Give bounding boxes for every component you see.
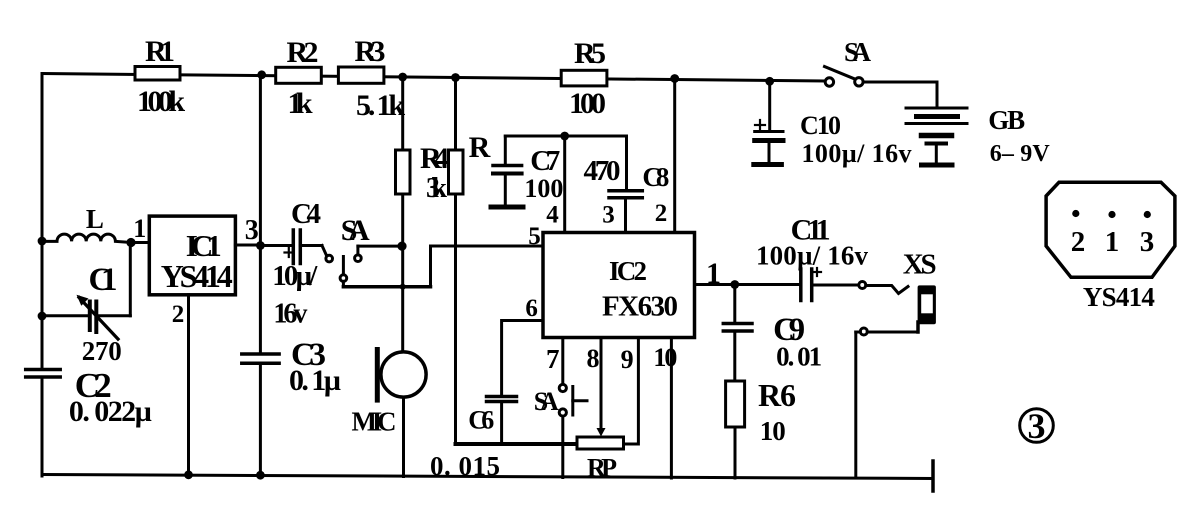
svg-text:2: 2 <box>655 200 668 227</box>
wire bottom rail <box>42 475 933 479</box>
op-amp IC2 box <box>543 233 695 338</box>
svg-text:C7: C7 <box>530 145 560 177</box>
resistor R <box>449 150 464 194</box>
svg-text:R2: R2 <box>287 36 319 69</box>
connector YS414 package <box>1046 182 1175 277</box>
svg-text:C6: C6 <box>468 406 494 435</box>
wire node pin3 vertical (top rail to C3 to bottom rail) <box>259 76 262 354</box>
svg-text:100: 100 <box>569 87 606 120</box>
svg-text:L: L <box>86 204 104 234</box>
svg-text:5. 1k: 5. 1k <box>356 89 405 122</box>
svg-text:R6: R6 <box>758 377 796 413</box>
svg-text:3: 3 <box>602 202 615 229</box>
svg-text:YS414: YS414 <box>1083 282 1155 312</box>
microphone MIC <box>375 246 426 476</box>
svg-text:8: 8 <box>587 344 600 373</box>
switch SA top-right <box>825 67 938 108</box>
svg-text:1: 1 <box>1105 226 1120 258</box>
svg-text:1k: 1k <box>288 87 313 120</box>
wire left vertical rail <box>41 74 44 370</box>
jack XS body <box>918 285 936 324</box>
wire R4 to node A <box>401 194 404 246</box>
wire top rail <box>42 74 825 82</box>
svg-text:SA: SA <box>844 37 872 67</box>
svg-text:100: 100 <box>524 174 563 203</box>
wire R4 branch from top rail <box>401 77 404 150</box>
wire R branch from top rail <box>454 78 457 151</box>
wire IC2 pin8 to RP wiper <box>600 338 603 429</box>
switch SA middle (after C4) <box>326 246 431 287</box>
capacitor C1 (variable) <box>42 243 130 340</box>
wire IC2 pin10 to bottom rail <box>670 338 673 479</box>
wire IC2 pin7 <box>561 338 564 385</box>
wire IC2 pin9 to RP right <box>624 338 639 445</box>
capacitor C8 <box>609 136 642 233</box>
svg-text:3: 3 <box>245 215 259 246</box>
wire IC1 pin3 to node <box>235 244 260 247</box>
resistor R4 <box>396 150 411 194</box>
svg-text:6: 6 <box>525 295 538 322</box>
svg-text:270: 270 <box>82 336 122 366</box>
svg-text:FX630: FX630 <box>602 291 678 323</box>
jack XS lower contact <box>856 322 918 478</box>
wire IC2 pin2 to top rail <box>673 78 676 233</box>
svg-text:6– 9V: 6– 9V <box>990 141 1051 167</box>
capacitor C4 <box>260 230 326 264</box>
resistor R6 <box>726 381 745 427</box>
svg-text:YS414: YS414 <box>161 258 233 294</box>
svg-text:1: 1 <box>706 257 721 290</box>
svg-text:7: 7 <box>546 344 560 374</box>
wire R down to RP node <box>454 194 457 444</box>
svg-text:C4: C4 <box>291 198 321 230</box>
svg-text:IC2: IC2 <box>609 256 647 286</box>
capacitor C7 <box>491 136 523 207</box>
svg-text:R1: R1 <box>145 35 175 68</box>
wire IC2 pin1 <box>695 283 799 286</box>
wire IC2 pin4 node to C7/C8 <box>505 135 626 138</box>
svg-text:0. 01: 0. 01 <box>776 342 822 372</box>
resistor R3 <box>338 67 384 83</box>
svg-text:3: 3 <box>1140 226 1155 258</box>
resistor R5 <box>561 70 607 86</box>
svg-text:470: 470 <box>584 155 621 187</box>
switch SA bottom (pin7) <box>559 384 587 477</box>
wire RP left node horizontal <box>456 442 578 446</box>
ground tick at right end of bottom rail <box>931 461 935 491</box>
svg-text:GB: GB <box>988 105 1025 135</box>
op-amp IC1 box <box>149 216 235 295</box>
svg-text:0. 015: 0. 015 <box>430 451 500 481</box>
svg-text:XS: XS <box>903 249 937 281</box>
inductor L <box>42 234 149 242</box>
resistor R2 <box>276 67 322 83</box>
svg-text:R5: R5 <box>574 37 606 70</box>
svg-text:0. 1µ: 0. 1µ <box>289 364 341 397</box>
svg-text:100k: 100k <box>137 85 185 118</box>
svg-text:SA: SA <box>534 387 559 416</box>
jack XS upper contact <box>859 282 908 294</box>
svg-text:9: 9 <box>621 345 634 374</box>
capacitor C6 <box>487 397 517 445</box>
svg-text:1: 1 <box>133 214 146 243</box>
svg-text:C1: C1 <box>89 262 118 298</box>
svg-text:C8: C8 <box>642 162 669 192</box>
capacitor C9 <box>723 285 752 382</box>
svg-text:R4: R4 <box>420 142 449 175</box>
svg-text:2: 2 <box>1071 226 1086 258</box>
svg-text:RP: RP <box>587 454 617 483</box>
svg-text:R3: R3 <box>355 35 386 68</box>
capacitor C3 <box>242 354 279 363</box>
svg-text:3: 3 <box>1028 406 1046 446</box>
resistor R1 <box>135 67 180 81</box>
capacitor C2 <box>26 370 61 378</box>
potentiometer RP <box>577 437 624 449</box>
svg-text:R: R <box>469 131 491 164</box>
svg-text:10µ/: 10µ/ <box>272 260 318 292</box>
wire IC2 pin6 to C6 <box>502 321 543 396</box>
wire IC1 pin2 down to bottom rail <box>187 295 190 475</box>
svg-text:16v: 16v <box>273 299 307 330</box>
circled 3 figure number <box>1020 409 1054 443</box>
capacitor C10 <box>754 81 783 165</box>
svg-text:C10: C10 <box>800 111 841 140</box>
svg-text:100µ/ 16v: 100µ/ 16v <box>756 241 869 271</box>
svg-text:0. 022µ: 0. 022µ <box>69 395 152 428</box>
svg-text:SA: SA <box>341 214 370 247</box>
svg-text:3k: 3k <box>426 173 447 204</box>
svg-text:2: 2 <box>172 301 185 328</box>
svg-text:MIC: MIC <box>352 407 397 437</box>
wire SA to IC2 pin5 <box>431 246 544 287</box>
svg-text:5: 5 <box>528 223 541 250</box>
svg-text:100µ/ 16v: 100µ/ 16v <box>802 139 912 168</box>
svg-text:10: 10 <box>760 416 786 446</box>
capacitor C11 <box>801 268 859 301</box>
battery GB <box>906 108 967 165</box>
svg-text:10: 10 <box>653 343 677 372</box>
svg-text:4: 4 <box>546 202 559 229</box>
